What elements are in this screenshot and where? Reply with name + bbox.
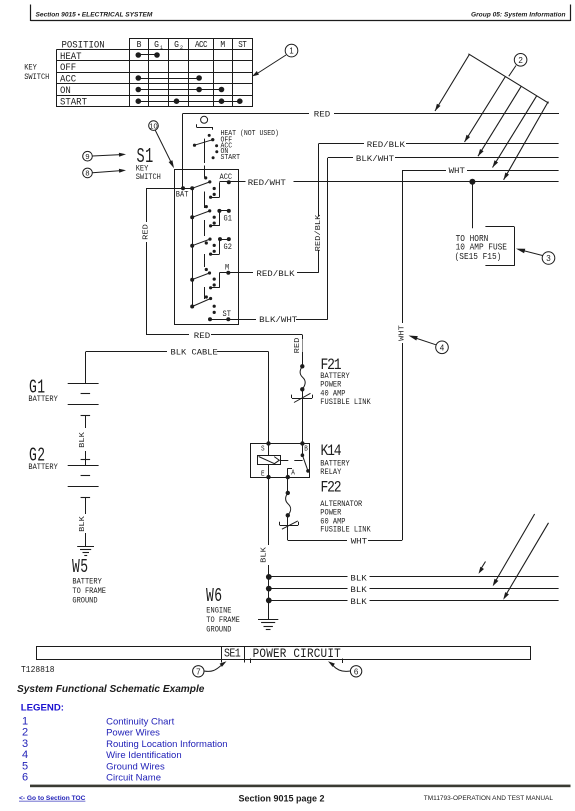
svg-text:RED/BLK: RED/BLK <box>315 214 323 251</box>
svg-text:A: A <box>291 469 295 477</box>
svg-text:SWITCH: SWITCH <box>136 174 161 183</box>
svg-text:BATTERY: BATTERY <box>28 463 58 472</box>
svg-text:S: S <box>261 445 265 453</box>
svg-text:LEGEND:: LEGEND: <box>21 702 64 713</box>
svg-text:START: START <box>221 154 240 163</box>
svg-text:(SE15 F15): (SE15 F15) <box>455 251 502 262</box>
svg-text:<- Go to Section TOC: <- Go to Section TOC <box>19 795 86 802</box>
svg-text:W5: W5 <box>72 555 89 577</box>
svg-text:KEY: KEY <box>24 64 37 73</box>
svg-text:GROUND: GROUND <box>206 626 232 635</box>
svg-text:Ground Wires: Ground Wires <box>106 761 165 772</box>
svg-text:BLK: BLK <box>79 516 87 532</box>
svg-text:POSITION: POSITION <box>62 39 105 51</box>
svg-text:BLK: BLK <box>79 432 87 448</box>
svg-text:7: 7 <box>196 667 201 676</box>
svg-text:BLK/WHT: BLK/WHT <box>356 154 394 163</box>
svg-text:ST: ST <box>223 311 232 320</box>
svg-text:Circuit Name: Circuit Name <box>106 773 161 784</box>
svg-text:BATTERY: BATTERY <box>72 578 102 587</box>
svg-text:Wire Identification: Wire Identification <box>106 750 182 761</box>
svg-text:ON: ON <box>60 84 71 96</box>
svg-text:RED: RED <box>194 331 210 340</box>
svg-text:W6: W6 <box>206 584 223 606</box>
svg-text:RELAY: RELAY <box>320 468 341 477</box>
svg-text:GROUND: GROUND <box>72 597 98 606</box>
svg-text:FUSIBLE LINK: FUSIBLE LINK <box>320 526 371 535</box>
svg-text:1: 1 <box>160 44 163 52</box>
svg-text:OFF: OFF <box>60 62 76 74</box>
svg-text:G2: G2 <box>224 243 233 252</box>
svg-text:HEAT: HEAT <box>60 50 82 62</box>
svg-text:ACC: ACC <box>60 73 76 85</box>
svg-text:E: E <box>261 470 265 478</box>
svg-text:POWER: POWER <box>320 381 341 390</box>
svg-text:BLK/WHT: BLK/WHT <box>259 316 297 325</box>
svg-text:G1: G1 <box>224 215 233 224</box>
svg-text:K14: K14 <box>321 443 341 460</box>
svg-text:POWER: POWER <box>320 509 341 518</box>
svg-text:ACC: ACC <box>195 41 208 51</box>
svg-text:POWER CIRCUIT: POWER CIRCUIT <box>253 646 341 661</box>
svg-text:4: 4 <box>440 343 445 352</box>
svg-text:M: M <box>225 264 230 273</box>
svg-text:Continuity Chart: Continuity Chart <box>106 716 174 727</box>
svg-text:1: 1 <box>289 47 294 56</box>
svg-text:RED/BLK: RED/BLK <box>367 140 406 149</box>
svg-text:WHT: WHT <box>398 325 406 341</box>
svg-text:ST: ST <box>238 41 247 51</box>
svg-text:Section 9015 page 2: Section 9015 page 2 <box>238 794 324 804</box>
svg-text:6: 6 <box>22 772 28 784</box>
svg-text:B: B <box>137 39 142 50</box>
svg-text:RED: RED <box>314 110 330 119</box>
svg-text:Routing Location Information: Routing Location Information <box>106 739 227 750</box>
svg-text:10: 10 <box>149 121 157 130</box>
svg-text:6: 6 <box>354 667 359 676</box>
svg-text:BLK: BLK <box>350 585 367 594</box>
svg-text:Section 9015 • ELECTRICAL SYST: Section 9015 • ELECTRICAL SYSTEM <box>36 12 153 19</box>
svg-text:4: 4 <box>22 749 28 761</box>
svg-text:BLK: BLK <box>260 547 268 563</box>
svg-text:2: 2 <box>180 44 183 52</box>
svg-text:TM11793-OPERATION AND TEST MAN: TM11793-OPERATION AND TEST MANUAL <box>424 795 554 802</box>
svg-text:5: 5 <box>22 760 28 772</box>
svg-text:WHT: WHT <box>449 167 465 176</box>
svg-text:BLK: BLK <box>350 574 367 583</box>
svg-text:RED: RED <box>294 337 302 353</box>
svg-text:RED/BLK: RED/BLK <box>256 269 295 278</box>
svg-text:SWITCH: SWITCH <box>24 74 49 83</box>
svg-text:M: M <box>220 39 225 50</box>
svg-text:2: 2 <box>518 56 523 65</box>
svg-text:TO FRAME: TO FRAME <box>206 617 240 626</box>
svg-text:WHT: WHT <box>351 537 367 546</box>
svg-text:G: G <box>174 39 179 50</box>
svg-text:9: 9 <box>85 152 89 161</box>
svg-text:START: START <box>60 96 87 108</box>
svg-text:Power Wires: Power Wires <box>106 728 160 739</box>
svg-text:BATTERY: BATTERY <box>28 395 58 404</box>
svg-text:1: 1 <box>22 715 28 727</box>
svg-text:2: 2 <box>22 727 28 739</box>
svg-text:3: 3 <box>22 738 28 750</box>
svg-text:ENGINE: ENGINE <box>206 607 232 616</box>
svg-text:System Functional Schematic Ex: System Functional Schematic Example <box>17 684 205 695</box>
svg-text:G: G <box>154 39 159 50</box>
svg-text:T128818: T128818 <box>21 664 55 675</box>
svg-text:FUSIBLE LINK: FUSIBLE LINK <box>320 398 371 407</box>
svg-text:BAT: BAT <box>176 191 189 200</box>
svg-text:F22: F22 <box>321 479 341 496</box>
svg-text:RED/WHT: RED/WHT <box>248 178 286 187</box>
svg-text:BLK CABLE: BLK CABLE <box>171 348 218 358</box>
svg-text:Group 05: System Information: Group 05: System Information <box>471 12 566 19</box>
svg-text:3: 3 <box>546 254 551 263</box>
svg-text:RED: RED <box>142 224 150 240</box>
svg-text:8: 8 <box>85 169 89 178</box>
svg-text:TO FRAME: TO FRAME <box>72 588 106 597</box>
svg-text:SE1: SE1 <box>224 648 240 661</box>
svg-text:B: B <box>304 445 308 453</box>
svg-text:BLK: BLK <box>350 597 367 606</box>
